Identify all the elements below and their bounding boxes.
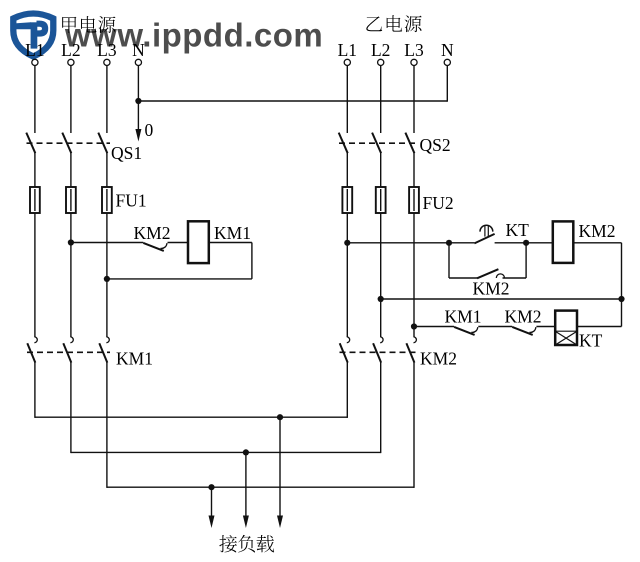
wire KM1 pole3 to bus3 (106, 362, 108, 488)
KM2 pole 2 (373, 337, 383, 363)
wire L1 A FU1 to KM1 contact (34, 213, 36, 338)
svg-text:N: N (441, 40, 454, 60)
bus line 3 (107, 486, 414, 488)
QS2 pole 1 (339, 133, 348, 154)
wire KM1 pole1 to bus1 (34, 362, 36, 418)
fuse FU1 (30, 187, 112, 213)
svg-text:N: N (132, 40, 145, 60)
wire L1 A terminal to QS1 (34, 66, 36, 134)
switch QS1 (26, 133, 110, 154)
wire branch left vertical (448, 243, 450, 278)
wire L1 B QS2 to FU2 (346, 153, 348, 188)
wire branch right vertical (525, 243, 527, 278)
wire L3 B to KM1 NC contact (414, 326, 454, 328)
svg-text:L3: L3 (97, 40, 117, 60)
QS2 linkage (dashed) (339, 142, 419, 144)
wire KT contact to KM2 coil (495, 242, 553, 244)
wire branch to KM2 NO contact (449, 277, 477, 279)
terminal L1 (source B) (344, 59, 350, 65)
coil KM1 (188, 221, 209, 263)
svg-text:L3: L3 (404, 40, 424, 60)
wire KM1 coil to return (209, 242, 252, 244)
svg-text:L2: L2 (61, 40, 80, 60)
wire L3 B FU2 to KM2 contact (413, 213, 415, 338)
junction L1 B control tap (344, 240, 350, 246)
wire L1 B FU2 to KM2 contact (346, 213, 348, 338)
terminal L1 (source A) (32, 59, 38, 65)
wire KM1 pole2 to bus2 (70, 362, 72, 453)
junction bus1 tap (277, 414, 283, 420)
QS1 pole 3 (98, 133, 107, 154)
junction bus3 tap (208, 484, 214, 490)
KM2 pole 1 (340, 337, 350, 363)
wire L2 A to KM2 NC contact (71, 242, 143, 244)
wire L3 A terminal to QS1 (106, 66, 108, 134)
junction branch right (523, 240, 529, 246)
contact KM2 NC (interlock) (143, 243, 167, 251)
KM1 pole 3 (99, 337, 109, 363)
wire KM2 pole2 to bus2 (380, 362, 382, 453)
svg-text:QS1: QS1 (111, 143, 142, 163)
wire L1 A QS1 to FU1 (34, 153, 36, 188)
wire L1 B to KT contact (347, 242, 474, 244)
terminal L2 (source A) (68, 59, 74, 65)
wire KM2 NO to branch right (503, 277, 527, 279)
svg-text:KT: KT (506, 220, 530, 240)
wire KM2 coil to right vertical (573, 242, 621, 244)
wire KM2 pole3 to bus3 (413, 362, 415, 488)
svg-text:KM2: KM2 (473, 279, 510, 299)
svg-text:L1: L1 (25, 40, 44, 60)
wire N A terminal down (137, 66, 139, 102)
svg-text:FU1: FU1 (116, 191, 147, 211)
svg-text:0: 0 (145, 120, 154, 140)
wire L2 B terminal to QS2 (380, 66, 382, 134)
junction L2 A control tap (68, 239, 74, 245)
KM1 linkage (dashed) (27, 351, 110, 353)
title source B 乙电源 (366, 15, 421, 32)
watermark logo shield (13, 14, 53, 57)
contactor KM2 main contacts (340, 337, 419, 363)
wire neutral bus (138, 100, 447, 102)
contact KM2 NO (self-holding) (477, 269, 505, 278)
wire control return to L2 B (381, 298, 622, 300)
svg-text:KT: KT (579, 331, 603, 351)
junction L2 B control return (378, 296, 384, 302)
terminal L2 (source B) (378, 59, 384, 65)
wire L2 A FU1 to KM1 contact (70, 213, 72, 338)
svg-text:KM2: KM2 (505, 307, 542, 327)
switch QS2 (339, 133, 419, 154)
bus line 2 (71, 451, 381, 453)
junction L3 B KT tap (411, 323, 417, 329)
wire KT coil to right vertical (577, 326, 622, 328)
wire KM2 NC to KT coil (536, 326, 555, 328)
QS1 pole 2 (62, 133, 71, 154)
fuse FU2 (342, 187, 419, 213)
bus line 1 (35, 416, 347, 418)
wire L1 B terminal to QS2 (346, 66, 348, 134)
svg-text:KM1: KM1 (116, 349, 153, 369)
junction N bus (135, 98, 141, 104)
wire KM2 pole1 to bus1 (346, 362, 348, 418)
svg-text:KM1: KM1 (445, 307, 482, 327)
arrow load phase 3 (209, 487, 215, 528)
wire L2 A QS1 to FU1 (70, 153, 72, 188)
contact KT delayed-close NO (474, 225, 494, 243)
KM2 pole 3 (406, 337, 416, 363)
wire L3 A QS1 to FU1 (106, 153, 108, 188)
wire KM2 NC to KM1 coil (168, 242, 189, 244)
KM1 pole 1 (27, 337, 37, 363)
terminal N (source B) (444, 59, 450, 65)
svg-text:KM1: KM1 (214, 223, 251, 243)
contact KM2 NC (512, 327, 536, 335)
svg-text:KM2: KM2 (420, 349, 457, 369)
svg-text:QS2: QS2 (420, 135, 451, 155)
svg-text:KM2: KM2 (579, 221, 616, 241)
wire (413, 189, 415, 211)
coil KT (time relay) (555, 311, 577, 345)
wire (346, 189, 348, 211)
wire KM1 coil return vertical (251, 243, 253, 279)
junction branch left (446, 240, 452, 246)
svg-text:KM2: KM2 (134, 223, 171, 243)
svg-text:L1: L1 (338, 40, 357, 60)
wire (380, 189, 382, 211)
wire right control vertical (621, 243, 623, 327)
wire KM1 NC to KM2 NC (478, 326, 512, 328)
wire L3 B QS2 to FU2 (413, 153, 415, 188)
wire (34, 189, 36, 211)
terminal N (source A) (135, 59, 141, 65)
wire L2 B QS2 to FU2 (380, 153, 382, 188)
contact KM1 NC (454, 327, 478, 335)
arrow load phase 1 (277, 417, 283, 528)
title source A 甲电源 (62, 16, 115, 33)
arrow load phase 2 (243, 452, 249, 528)
junction right vertical return (618, 296, 624, 302)
QS1 linkage (dashed) (27, 142, 111, 144)
QS2 pole 3 (405, 133, 414, 154)
coil KM2 (553, 221, 574, 263)
KM1 pole 2 (63, 337, 73, 363)
svg-text:L2: L2 (371, 40, 390, 60)
KM2 linkage (dashed) (340, 351, 419, 353)
wire N B terminal down (446, 66, 448, 102)
QS2 pole 2 (372, 133, 381, 154)
contactor KM1 main contacts (27, 337, 110, 363)
junction L3 A control return (104, 276, 110, 282)
svg-text:FU2: FU2 (423, 193, 454, 213)
wire L3 B terminal to QS2 (413, 66, 415, 134)
arrow neutral 0 (135, 101, 141, 142)
wire L2 B FU2 to KM2 contact (380, 213, 382, 338)
wire L3 A FU1 to KM1 contact (106, 213, 108, 338)
terminal L3 (source B) (411, 59, 417, 65)
wire (106, 189, 108, 211)
terminal L3 (source A) (104, 59, 110, 65)
wire (70, 189, 72, 211)
junction bus2 tap (243, 449, 249, 455)
label to load 接负载 (219, 535, 274, 553)
QS1 pole 1 (26, 133, 35, 154)
wire KM1 coil return to L3 A (107, 278, 252, 280)
wire L2 A terminal to QS1 (70, 66, 72, 134)
